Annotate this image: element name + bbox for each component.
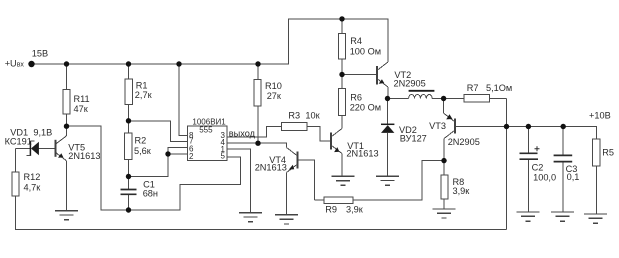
svg-text:R4: R4 [350,36,362,46]
svg-text:68н: 68н [143,188,158,198]
svg-text:9,1В: 9,1В [33,128,52,138]
svg-text:R10: R10 [265,81,282,91]
svg-text:КС191: КС191 [5,136,32,146]
svg-text:0,1: 0,1 [567,172,580,182]
svg-text:выход: выход [229,128,256,138]
svg-text:27к: 27к [267,91,282,101]
svg-text:2N2905: 2N2905 [448,137,480,147]
svg-text:2N1613: 2N1613 [68,151,100,161]
svg-text:5,1Ом: 5,1Ом [486,83,512,93]
svg-text:R5: R5 [602,147,614,157]
svg-text:3,9к: 3,9к [346,205,364,215]
svg-text:100,0: 100,0 [533,173,556,183]
svg-text:100 Ом: 100 Ом [350,46,381,56]
svg-text:ВУ127: ВУ127 [400,134,427,144]
svg-text:220 Ом: 220 Ом [350,103,381,113]
svg-text:2: 2 [189,152,194,161]
svg-text:R3: R3 [288,111,300,121]
svg-text:R11: R11 [74,94,90,104]
svg-text:3,9к: 3,9к [453,186,471,196]
svg-text:5,6к: 5,6к [134,146,152,156]
svg-text:C2: C2 [532,163,544,173]
svg-text:15В: 15В [32,48,48,58]
svg-text:4,7к: 4,7к [24,183,42,193]
svg-text:47к: 47к [74,104,89,114]
svg-text:2N1613: 2N1613 [346,149,378,159]
svg-text:R7: R7 [467,83,479,93]
svg-text:R6: R6 [350,92,362,102]
svg-text:+10В: +10В [589,110,611,120]
svg-text:2N1613: 2N1613 [255,162,287,172]
svg-text:R2: R2 [135,135,147,145]
svg-text:R9: R9 [325,205,337,215]
svg-text:555: 555 [199,125,213,134]
svg-text:2,7к: 2,7к [135,90,153,100]
svg-text:2N2905: 2N2905 [394,79,426,89]
svg-text:R12: R12 [24,172,41,182]
svg-text:5: 5 [221,152,226,161]
svg-text:VT3: VT3 [429,121,446,131]
svg-text:10к: 10к [305,111,320,121]
svg-text:R1: R1 [136,80,148,90]
